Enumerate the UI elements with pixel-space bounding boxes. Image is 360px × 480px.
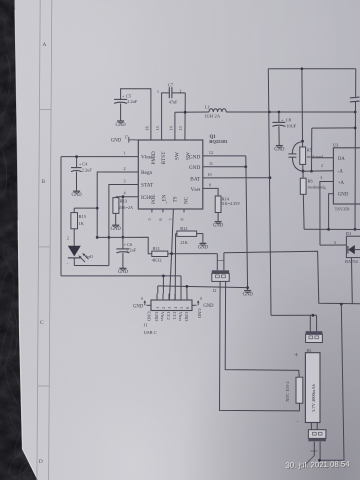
node right vert [354,111,357,114]
paper edge highlight [18,220,37,479]
svg-text:1K: 1K [79,221,85,226]
usb shell right GND [192,304,197,306]
wire R15 tie row [74,207,97,209]
IC U1 pin17 GND flag [128,137,130,143]
node right v 229 [354,228,357,231]
connector J3 battery plus [309,315,311,331]
u3 pin wires [311,157,333,159]
svg-text:GND: GND [116,123,127,128]
svg-text:13: 13 [178,126,183,130]
wire GND pins 12 and 11 [203,155,246,157]
svg-text:4: 4 [324,186,326,191]
wire left loop vertical [60,157,62,276]
J4 wires below [313,442,315,456]
node C6 tap [122,236,125,239]
wire BAT rail top [268,68,356,70]
node R5 feed [301,67,304,70]
svg-text:CC1: CC1 [172,312,177,320]
svg-text:GND: GND [338,193,349,198]
wire J2 to NTC bottom [220,281,300,411]
svg-text:3: 3 [123,179,125,184]
svg-text:+A: +A [338,181,345,186]
inductor L1 1UH 2A [209,109,226,112]
svg-text:B: B [41,179,45,185]
svg-text:GND: GND [243,293,254,298]
svg-text:D1: D1 [346,231,352,236]
capacitor across R5 [292,142,302,154]
svg-text:PMID: PMID [151,151,157,164]
wire tap to -A [303,170,333,172]
svg-text:led1: led1 [86,254,93,259]
wire net row to R11 [97,237,152,254]
svg-text:STAT: STAT [141,183,154,189]
svg-text:C: C [40,320,44,326]
op-amp U3 TSV358 [333,148,360,204]
svg-text:R5: R5 [307,148,312,153]
svg-text:GND: GND [198,245,209,250]
ground below R12 [199,242,206,244]
svg-text:BQ25303: BQ25303 [209,139,228,144]
svg-text:17: 17 [124,135,128,139]
svg-text:1: 1 [123,151,125,156]
svg-text:51K=4.35V: 51K=4.35V [221,201,241,206]
resistor R11 [152,251,168,256]
frame tick marks [40,109,52,111]
svg-text:J1: J1 [144,323,148,328]
connector J2 [216,254,218,271]
svg-text:+: + [294,351,298,359]
diode D1 BAT54 [346,236,360,257]
node C8 tap [278,111,281,114]
capacitor C7 47nF [162,93,170,140]
connector J4 battery minus [310,423,312,430]
svg-text:2: 2 [123,166,125,171]
svg-text:GND: GND [189,165,201,171]
svg-text:3: 3 [334,240,336,245]
ground below C5 [117,120,124,122]
svg-text:Vbus: Vbus [178,312,183,322]
svg-text:BAT: BAT [190,177,201,183]
wire feedback row y128 [312,127,355,129]
capacitor C right edge [350,96,360,99]
wire usb vbus pin2 [162,276,164,294]
svg-text:8: 8 [179,218,184,220]
svg-text:POL: POL [151,194,157,204]
svg-text:-: - [297,419,299,425]
wire CC2 down to USB pin3 [169,254,171,300]
svg-text:TSV358: TSV358 [335,206,351,211]
resistor R13 [115,196,117,199]
svg-text:R13: R13 [120,199,128,204]
node minusA tie [310,170,313,173]
wire GND net vertical [246,156,248,291]
usb pin stubs [156,294,158,300]
svg-text:GND: GND [184,312,189,322]
wire gnd row y229 [304,228,360,230]
svg-text:+: + [281,117,284,122]
svg-text:Vset: Vset [191,187,201,193]
svg-text:2.2uF: 2.2uF [126,248,136,253]
capacitor C8 10UF [278,112,280,122]
svg-text:1: 1 [157,90,159,94]
usb connector J1 body [151,300,192,311]
svg-text:47nF: 47nF [169,100,178,105]
resistor R15 [71,213,78,229]
svg-text:GND: GND [118,270,129,275]
wire ichg branch down [122,197,124,238]
svg-text:15: 15 [155,126,160,130]
svg-text:10UF: 10UF [286,123,296,128]
node R15 tie [96,207,99,210]
svg-text:SW: SW [175,152,181,160]
svg-text:C4: C4 [82,162,88,167]
capacitor C4 [76,157,78,168]
svg-text:C7: C7 [168,82,174,87]
wire R11 to J2 pin1 [168,253,218,255]
node BAT vert crossing [268,111,271,114]
thermistor NTC 103-2 [296,377,303,403]
svg-text:GND: GND [203,304,214,309]
ground below R14 [215,221,222,223]
ground mid GND symbol [244,290,251,292]
node pin11 junction [244,165,247,168]
wire to D1 [320,244,346,246]
svg-text:6: 6 [158,218,163,220]
svg-text:NC: NC [184,196,190,204]
svg-text:A: A [43,42,47,48]
svg-text:GND: GND [133,304,144,309]
svg-text:B1: B1 [307,349,311,353]
node C4 tap [75,155,78,158]
wire D1 bottom pin [351,258,354,304]
svg-text:4: 4 [173,307,178,309]
ground below R13 [112,224,119,226]
wire ICHG pin4 [116,196,138,198]
wire bottom-right return loop [340,303,343,306]
svg-text:C8: C8 [286,117,292,122]
camera timestamp [285,459,351,470]
wire +A [320,182,334,246]
wire BAT main vertical [268,69,271,316]
svg-text:D: D [39,459,43,465]
svg-text:3.7V 4000mAh: 3.7V 4000mAh [311,383,316,412]
wire battery plus feed [271,314,317,316]
svg-text:J2: J2 [213,288,217,293]
node stat row [108,236,111,239]
wire L1 output rail [226,111,355,113]
wire Vset pin9 to R14 [203,188,218,196]
ground below C6 [119,267,126,269]
node R5 top [301,140,304,143]
wire BAT pin10 [203,177,270,179]
svg-text:5: 5 [147,218,152,220]
node R5 bottom tap [302,170,305,173]
svg-text:3: 3 [320,175,322,180]
svg-text:Vbus: Vbus [160,312,165,322]
svg-text:2: 2 [67,237,69,241]
usb shell left GND [147,304,152,306]
svg-text:_EN: _EN [162,194,168,205]
resistor R5 [302,141,304,147]
svg-text:U3: U3 [333,143,339,148]
svg-text:GND: GND [274,148,285,153]
svg-text:4K32: 4K32 [152,257,162,262]
svg-text:GND: GND [213,224,224,229]
svg-text:2.2uF: 2.2uF [127,99,138,104]
node BAT junction [269,176,272,179]
svg-text:0: 0 [141,297,143,301]
wire usb gnd row [158,286,248,288]
svg-text:GND: GND [111,138,122,143]
svg-text:GND: GND [147,312,152,322]
svg-text:11: 11 [209,161,213,166]
IC U1 pin 8 stub [183,209,185,212]
wire SW pins to L1 [184,93,186,140]
LED light arrows [79,256,85,262]
svg-text:12: 12 [209,150,213,155]
svg-text:L1: L1 [205,105,211,110]
wire R15 to LED [73,229,75,246]
node usb gnd pin6 [186,285,189,288]
svg-text:-A: -A [338,169,344,174]
svg-text:0: 0 [200,297,202,301]
wire TS row right segment [224,251,360,304]
svg-text:1UH 2A: 1UH 2A [204,114,221,119]
svg-text:BTST: BTST [161,151,167,165]
svg-text:10: 10 [207,172,211,177]
wire LED cathode row [74,265,109,267]
svg-text:C5: C5 [126,94,132,99]
svg-text:USB C: USB C [144,330,157,335]
svg-text:GND: GND [111,227,122,232]
resistor R14 [215,196,221,213]
node regn bottom [96,236,99,239]
svg-text:2: 2 [321,163,323,168]
node right v 128 [354,127,357,130]
node CC2 tap [170,252,173,255]
svg-text:30. jul. 2021 08.54: 30. jul. 2021 08.54 [285,460,350,470]
svg-text:5: 5 [179,307,184,309]
ground below C8 [276,145,283,147]
svg-text:C6: C6 [127,242,133,247]
wire Vbus pin1 to left loop [61,156,138,158]
svg-text:OA: OA [338,157,345,162]
IC U1 pin 6 stub [162,209,164,212]
wire R6 bottom to gnd row [302,194,305,229]
svg-text:6: 6 [185,307,190,309]
svg-text:R11: R11 [153,246,160,251]
svg-text:GND: GND [154,312,159,322]
wire usb vbus pin5 [180,276,182,294]
node ichg branch [122,195,125,198]
svg-text:TS: TS [173,196,179,202]
capacitor C5 [121,89,151,140]
resistor R12 [176,233,177,235]
wire right edge vertical lower [354,102,357,230]
node usb gnd row end [246,286,249,289]
frame border column [37,0,40,480]
resistor R6 [302,171,304,178]
capacitor C6 [122,237,124,249]
LED led1 [68,246,81,257]
node battery feed [312,314,315,317]
wire J2 to NTC top [225,281,299,377]
svg-text:3: 3 [167,307,172,309]
svg-text:GND: GND [72,193,83,198]
wire Regn pin2 [97,172,138,237]
svg-text:CC2: CC2 [166,312,171,320]
wire u3 gnd pin4 [329,194,334,230]
node u3 gnd tie [327,228,330,231]
svg-text:GND: GND [197,309,202,319]
svg-text:21K: 21K [180,240,188,245]
svg-text:NTC 103-2: NTC 103-2 [285,381,290,401]
svg-text:modstand: modstand [308,184,324,189]
ground below C4 [73,190,80,192]
svg-text:SW: SW [186,152,192,160]
wire STAT pin3 [109,185,138,266]
wire R5 feed vertical [301,69,304,141]
svg-text:9: 9 [209,182,211,187]
wire TS pin7 down [172,209,174,254]
svg-text:Regn: Regn [141,170,153,176]
wire right edge vertical upper [355,69,357,97]
svg-text:1: 1 [155,307,160,309]
svg-text:2: 2 [161,307,166,309]
svg-text:16: 16 [145,126,150,130]
svg-text:20K=2A: 20K=2A [119,205,133,210]
svg-text:R12: R12 [180,226,187,231]
node USB vbus tap [162,275,165,278]
op-amp U1 charger IC body (BQ25303) [138,140,203,209]
IC U1 pin 5 stub [151,209,153,212]
svg-text:+: + [122,94,125,99]
svg-text:2.2uF: 2.2uF [82,168,93,173]
wire feedback vertical x311 [311,128,313,171]
svg-text:R15: R15 [79,214,87,219]
wire left loop bottom Vbus rail [61,275,181,277]
svg-text:R6: R6 [308,178,314,183]
svg-text:2: 2 [180,90,182,94]
